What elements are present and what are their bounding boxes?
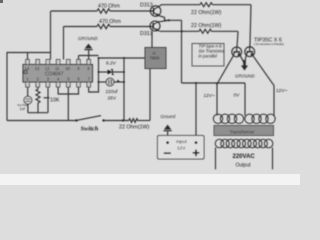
svg-text:470 Ohm: 470 Ohm [98,3,120,9]
svg-text:22 Ohm(1W): 22 Ohm(1W) [191,23,222,29]
svg-text:Input: Input [176,139,187,145]
svg-text:220VAC: 220VAC [233,154,256,160]
svg-text:22 Ohm(1W): 22 Ohm(1W) [119,125,150,131]
svg-text:GROUND: GROUND [235,74,255,79]
svg-text:10K: 10K [50,98,60,104]
svg-text:0V: 0V [234,93,241,99]
svg-text:( Six transistors in Parallel): ( Six transistors in Parallel) [254,43,284,46]
svg-text:D313: D313 [140,3,153,9]
svg-text:12: 12 [45,66,50,71]
svg-text:12V: 12V [177,146,186,152]
svg-text:Transformer: Transformer [230,129,255,134]
svg-text:Switch: Switch [81,125,99,132]
svg-text:13: 13 [35,66,40,71]
svg-text:D313: D313 [140,31,153,37]
svg-text:12V~: 12V~ [276,88,288,94]
svg-text:7809: 7809 [150,56,160,61]
svg-text:11: 11 [55,66,60,71]
svg-text:220uf: 220uf [106,89,119,95]
svg-text:12V~: 12V~ [204,93,216,99]
svg-text:470 Ohm: 470 Ohm [99,19,121,25]
svg-text:GROUND: GROUND [78,36,98,41]
svg-text:Output: Output [236,163,252,169]
svg-text:14: 14 [25,66,30,71]
svg-text:22 Ohm(1W): 22 Ohm(1W) [191,10,222,16]
svg-text:8.2V: 8.2V [106,60,117,66]
svg-text:10: 10 [65,66,70,71]
svg-text:25V: 25V [108,95,117,101]
svg-text:in parallel: in parallel [199,54,218,59]
svg-text:Ground: Ground [161,114,176,119]
